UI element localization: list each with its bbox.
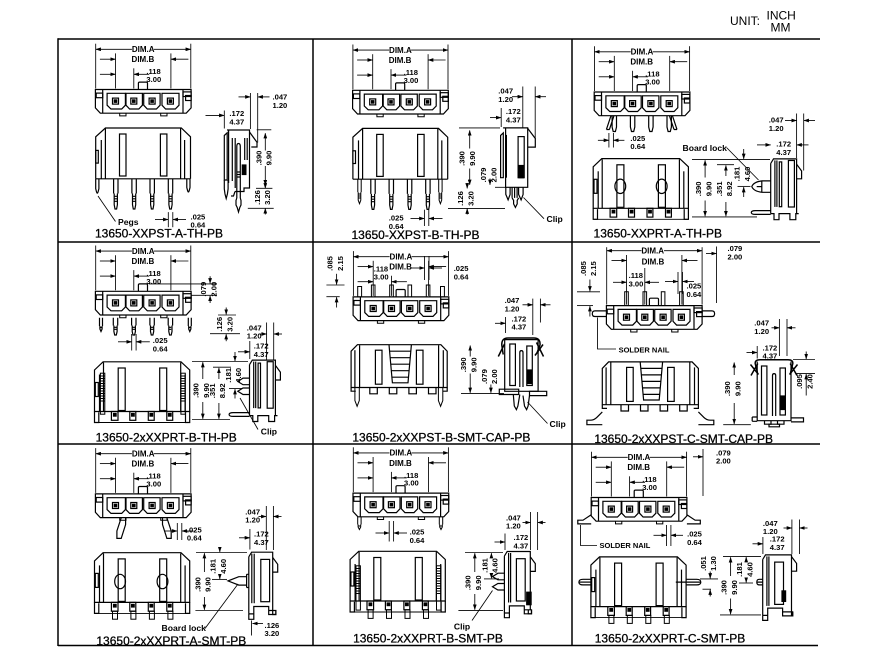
svg-text:0.64: 0.64: [153, 344, 169, 353]
svg-text:2.00: 2.00: [489, 168, 498, 183]
dim .025/0.64: [118, 334, 150, 351]
svg-text:Board lock: Board lock: [162, 623, 207, 633]
dim .126/3.20 vertical: [248, 183, 274, 215]
svg-text:0.64: 0.64: [687, 290, 703, 299]
SMT gull-wing lead right: [163, 518, 172, 539]
dim .390/9.90 vertical: [256, 130, 272, 189]
dim .085/2.15 vertical: [326, 274, 344, 308]
dim .172/4.37: [753, 537, 763, 554]
svg-text:3.00: 3.00: [642, 483, 657, 492]
cap spring: [498, 338, 543, 357]
svg-text:1.20: 1.20: [498, 95, 513, 104]
board lock pin right: [439, 179, 442, 204]
svg-text:13650-2xXXPST-B-SMT-CAP-PB: 13650-2xXXPST-B-SMT-CAP-PB: [352, 430, 530, 444]
mounting feet: [120, 518, 167, 521]
SMT pins up: [625, 292, 684, 306]
clip bar left: [356, 566, 360, 610]
oval contact left: [615, 179, 626, 193]
dim .025/0.64: [164, 523, 194, 540]
dim .390/9.90 vertical: [195, 553, 247, 611]
svg-text:.051: .051: [699, 555, 708, 571]
dim .079/2.00: [706, 247, 717, 304]
svg-text:.126: .126: [456, 191, 465, 206]
svg-text:13650-2xXXPRT-C-SMT-PB: 13650-2xXXPRT-C-SMT-PB: [595, 631, 746, 645]
dim .172/4.37: [490, 108, 501, 127]
dim .181/4.60 vertical: [212, 548, 227, 579]
dim .047/1.20: [259, 323, 282, 360]
oval contact left: [115, 574, 126, 588]
svg-text:13650-2xXXPRT-B-SMT-PB: 13650-2xXXPRT-B-SMT-PB: [353, 632, 503, 646]
dim .172/4.37: [747, 346, 758, 359]
svg-text:Clip: Clip: [547, 214, 563, 224]
solder nail tab: [757, 579, 763, 585]
polarization bump: [138, 82, 147, 89]
dim .181/4.60 vertical: [484, 553, 499, 579]
svg-text:4.60: 4.60: [491, 558, 500, 573]
board lock pin left: [358, 179, 361, 204]
svg-text:2.00: 2.00: [209, 282, 218, 297]
Clip label + leader: [528, 402, 548, 424]
svg-text:2.15: 2.15: [589, 260, 598, 276]
svg-text:3.20: 3.20: [263, 190, 272, 205]
polarization bump: [396, 83, 405, 90]
svg-text:Pegs: Pegs: [118, 217, 139, 227]
top view shell body: [353, 493, 449, 517]
dim .047/1.20: [512, 87, 546, 139]
SOLDER NAIL label + leader: [598, 318, 617, 350]
svg-text:4.37: 4.37: [776, 148, 791, 157]
svg-text:4.37: 4.37: [763, 352, 778, 361]
dim .047/1.20: [523, 512, 546, 550]
end pegs: [100, 318, 103, 332]
clip prongs: [493, 573, 505, 580]
SMT gull-wing lead left: [117, 518, 126, 539]
TH pin left: [751, 211, 770, 215]
svg-text:.390: .390: [720, 580, 729, 595]
svg-text:.079: .079: [199, 282, 208, 297]
side view right-angle with board lock: [751, 159, 801, 220]
svg-text:UNIT:: UNIT:: [730, 14, 760, 28]
top view shell body: [353, 90, 449, 114]
mounting feet: [631, 330, 678, 333]
SMT pins up: [371, 285, 430, 297]
svg-text:Board lock: Board lock: [683, 143, 728, 153]
polarization bump: [634, 490, 643, 497]
svg-text:.390: .390: [192, 383, 201, 398]
dimension head: [96, 448, 191, 493]
mounting feet: [120, 113, 167, 116]
svg-text:9.90: 9.90: [469, 357, 478, 372]
dim .351/8.92 vertical: [213, 367, 231, 419]
svg-text:2.15: 2.15: [336, 255, 345, 271]
solder nail wing left: [592, 311, 606, 317]
svg-text:.126: .126: [215, 317, 224, 332]
svg-text:3.00: 3.00: [146, 75, 161, 84]
svg-text:DIM.B: DIM.B: [642, 258, 665, 267]
svg-text:1.30: 1.30: [709, 556, 718, 571]
TH pin side: [237, 144, 241, 199]
svg-text:9.90: 9.90: [733, 381, 742, 396]
svg-text:4.60: 4.60: [234, 368, 243, 383]
dim .025/0.64: [376, 521, 408, 542]
bottom border: [58, 645, 818, 647]
solder nail right: [676, 579, 701, 585]
svg-text:.079: .079: [480, 369, 489, 384]
clip prongs: [238, 378, 250, 385]
side view right-angle SMT with board lock: [228, 552, 278, 619]
front view right-angle body: [593, 159, 688, 220]
pin 2: [132, 179, 136, 209]
svg-text:.390: .390: [464, 575, 473, 590]
svg-text:3.20: 3.20: [265, 629, 280, 638]
dim .181/4.60 vertical: [738, 149, 751, 197]
board lock bullet: [752, 181, 771, 192]
solder nail wing right: [687, 515, 700, 524]
svg-text:3.00: 3.00: [404, 76, 419, 85]
dim .079/2.00 vertical: [489, 179, 491, 185]
svg-text:.390: .390: [458, 151, 467, 166]
svg-text:.085: .085: [579, 260, 588, 276]
dim .051/1.30 vertical: [700, 572, 718, 597]
polarization bump: [138, 284, 147, 291]
pin 3: [150, 179, 154, 209]
dim .181/4.60 vertical: [739, 557, 753, 583]
pin 1: [114, 179, 118, 209]
top view shell body: [95, 494, 191, 518]
solder nail wing left: [578, 515, 591, 524]
svg-text:3.00: 3.00: [404, 479, 419, 488]
svg-text:9.90: 9.90: [704, 182, 713, 197]
svg-text:0.64: 0.64: [454, 272, 470, 281]
dim .079/2.00: [693, 449, 703, 496]
svg-text:3.20: 3.20: [467, 191, 476, 206]
svg-text:1.20: 1.20: [505, 304, 520, 313]
dim .172/4.37: [757, 144, 809, 146]
dim .172/4.37 above side view: [238, 341, 250, 359]
svg-text:13650-XXPRT-A-TH-PB: 13650-XXPRT-A-TH-PB: [594, 226, 723, 240]
cap spring both sides: [751, 360, 798, 376]
svg-text:.390: .390: [459, 357, 468, 372]
dim .047/1.20: [785, 114, 815, 171]
svg-text:1.20: 1.20: [245, 516, 260, 525]
svg-text:.181: .181: [224, 367, 233, 383]
side view right-angle SMT with clips: [493, 552, 536, 618]
svg-text:Clip: Clip: [261, 427, 277, 437]
svg-text:0.64: 0.64: [630, 142, 646, 151]
svg-text:9.90: 9.90: [730, 580, 739, 595]
svg-text:1.20: 1.20: [506, 522, 521, 531]
oval contact right: [157, 574, 168, 588]
front view right-angle body: [591, 557, 686, 618]
solder nail wing right: [702, 311, 715, 317]
clip bar right: [181, 373, 185, 414]
svg-text:.181: .181: [209, 558, 218, 574]
svg-text:.181: .181: [733, 166, 742, 182]
side view vertical header with clip: [501, 128, 536, 207]
svg-text:.351: .351: [715, 181, 724, 197]
SMT pads below front view: [113, 611, 173, 619]
svg-text:4.60: 4.60: [743, 167, 752, 182]
dimension head: [96, 245, 191, 290]
top view shell body: [95, 90, 191, 114]
svg-text:0.64: 0.64: [687, 538, 703, 547]
pin 1: [371, 179, 375, 209]
dimension head: [353, 45, 448, 90]
svg-text:4.37: 4.37: [770, 543, 785, 552]
svg-text:2.00: 2.00: [716, 457, 731, 466]
bottom steps: [504, 606, 531, 618]
mounting feet: [377, 321, 424, 324]
svg-text:SOLDER NAIL: SOLDER NAIL: [619, 345, 670, 354]
dim .390/9.90 vertical: [720, 557, 761, 615]
top view shell body: [594, 92, 690, 116]
svg-text:1.20: 1.20: [247, 332, 262, 341]
dim .126/3.20: [252, 621, 264, 636]
top border: [58, 38, 820, 40]
svg-text:3.00: 3.00: [146, 277, 161, 286]
svg-text:3.00: 3.00: [645, 78, 660, 87]
dim .172/4.37: [495, 317, 506, 333]
svg-text:Clip: Clip: [454, 621, 470, 631]
dim .172/4.37: [206, 111, 225, 129]
Board lock label + leader: [205, 584, 238, 629]
dim .047/1.20: [239, 93, 270, 143]
dim .025/0.64: [411, 210, 443, 226]
side view body: [224, 130, 257, 212]
dim .025/0.64: [155, 212, 186, 227]
svg-text:3.00: 3.00: [629, 280, 644, 289]
dim .025/0.64 under pins: [598, 133, 625, 148]
solder nail foot left: [587, 412, 602, 425]
svg-text:3.00: 3.00: [146, 479, 161, 488]
top view shell body: [591, 498, 687, 522]
svg-text:3.20: 3.20: [225, 317, 234, 332]
dim .047/1.20: [523, 299, 551, 335]
SMT pads below front view: [609, 615, 669, 623]
dim .025/0.64: [412, 256, 443, 280]
svg-text:.390: .390: [723, 381, 732, 396]
Clip label + leader: [472, 591, 493, 621]
front view body: [353, 128, 448, 179]
svg-text:13650-2xXXPRT-B-TH-PB: 13650-2xXXPRT-B-TH-PB: [96, 430, 237, 444]
svg-text:2.00: 2.00: [490, 369, 499, 384]
svg-text:MM: MM: [771, 21, 791, 35]
mounting feet: [377, 517, 424, 520]
front view right-angle body: [95, 362, 190, 423]
dim .351/8.92 vertical: [717, 165, 734, 217]
dim .181/4.60 vertical: [229, 352, 242, 399]
dim .390/9.90 vertical: [723, 363, 751, 425]
svg-text:.181: .181: [480, 557, 489, 573]
pin 2: [389, 179, 393, 209]
custom dimension head: [607, 247, 702, 304]
top view shell body: [95, 291, 191, 315]
Pegs label + leader: [98, 196, 116, 222]
column divider 2: [571, 39, 573, 646]
dim .047/1.20: [784, 520, 808, 555]
dimension head DIM.A/DIM.B/.118: [96, 44, 191, 89]
solder nail foot right: [698, 412, 713, 425]
svg-text:2.40: 2.40: [805, 374, 814, 389]
svg-text:4.60: 4.60: [745, 562, 754, 577]
dim .126/3.20 vertical: [210, 308, 240, 342]
svg-text:9.90: 9.90: [468, 151, 477, 166]
polarization bump: [396, 486, 405, 493]
clip bar left: [100, 373, 104, 414]
dim .390/9.90 vertical: [692, 160, 770, 217]
dim .172/4.37: [239, 529, 250, 550]
pin 3: [407, 179, 411, 209]
svg-text:9.90: 9.90: [265, 151, 274, 166]
front view vertical SMT body: [351, 345, 447, 394]
mounting feet: [120, 315, 167, 318]
dim .126/3.20 vertical: [448, 183, 505, 215]
dim .079/2.00 vertical: [149, 276, 217, 303]
dim .025/0.64: [654, 525, 684, 546]
top view shell body: [606, 306, 702, 330]
oval contact right: [656, 179, 667, 193]
front view right-angle body: [95, 553, 190, 614]
svg-text:DIM.A: DIM.A: [641, 247, 664, 256]
solder nail left: [579, 579, 591, 585]
polarization bump: [396, 290, 405, 297]
side view right-angle SMT with solder nail: [757, 555, 797, 621]
mounting feet: [377, 114, 424, 117]
row divider 2: [58, 443, 820, 445]
side view right-angle with clips: [229, 360, 280, 421]
svg-text:9.90: 9.90: [474, 575, 483, 590]
svg-text:0.64: 0.64: [187, 534, 203, 543]
svg-text:.085: .085: [326, 255, 335, 271]
end posts up: [358, 287, 445, 297]
TH pins below top view: [606, 116, 677, 132]
right peg: [187, 179, 190, 192]
svg-text:.126: .126: [253, 190, 262, 205]
dimension head: [592, 452, 687, 497]
svg-text:8.92: 8.92: [218, 383, 227, 398]
front view body: [96, 128, 191, 209]
dim .047/1.20: [259, 506, 282, 550]
svg-text:13650-2xXXPST-C-SMT-CAP-PB: 13650-2xXXPST-C-SMT-CAP-PB: [594, 432, 773, 446]
dim .047/1.20: [772, 319, 796, 356]
svg-text:.390: .390: [694, 182, 703, 197]
TH pin bottom: [229, 413, 249, 417]
svg-text:3.00: 3.00: [374, 273, 389, 282]
dim .390/9.90 vertical: [461, 346, 504, 394]
svg-text:8.92: 8.92: [725, 181, 734, 196]
svg-text:.351: .351: [208, 383, 217, 399]
svg-text:1.20: 1.20: [769, 124, 784, 133]
svg-text:SOLDER NAIL: SOLDER NAIL: [600, 541, 651, 550]
svg-text:4.37: 4.37: [254, 538, 269, 547]
bottom feet: [250, 416, 276, 422]
left border: [57, 38, 59, 646]
dim .085/2.15 vertical: [577, 280, 600, 317]
dim .390/9.90 vertical: [192, 362, 248, 420]
dim .390/9.90 vertical: [459, 128, 506, 187]
dim .172/4.37: [495, 534, 506, 551]
dimension head: [595, 46, 690, 91]
svg-text:0.64: 0.64: [410, 536, 426, 545]
svg-text:1.20: 1.20: [754, 327, 769, 336]
top view shell body: [353, 297, 449, 321]
front view right-angle body: [350, 551, 445, 612]
SMT pads below front view: [368, 610, 428, 619]
clip below: [506, 187, 510, 200]
polarization bump: [637, 85, 646, 92]
row divider 1: [58, 241, 820, 243]
dim .079/2.00 vertical: [490, 385, 492, 393]
svg-text:4.37: 4.37: [506, 116, 521, 125]
svg-text:4.37: 4.37: [229, 117, 244, 126]
svg-text:Clip: Clip: [550, 419, 566, 429]
svg-text:4.37: 4.37: [254, 350, 269, 359]
pin 4: [426, 179, 430, 209]
dimension head: [353, 251, 448, 296]
svg-text:13650-XXPST-B-TH-PB: 13650-XXPST-B-TH-PB: [351, 228, 479, 242]
column divider 1: [312, 39, 314, 646]
bottom steps: [249, 607, 276, 620]
bottom feet: [771, 214, 797, 220]
svg-text:2.00: 2.00: [728, 253, 743, 262]
polarization bump: [138, 487, 147, 494]
polarization bump: [649, 298, 658, 305]
short TH pins below top view: [100, 318, 192, 335]
svg-text:.095: .095: [795, 373, 804, 389]
svg-text:4.60: 4.60: [219, 559, 228, 574]
side view vertical SMT with cap and nails: [751, 360, 804, 427]
dimension head: [353, 447, 448, 492]
board lock bullet: [228, 574, 249, 587]
SOLDER NAIL label + leader: [581, 525, 598, 546]
svg-text:13650-XXPST-A-TH-PB: 13650-XXPST-A-TH-PB: [95, 227, 223, 241]
side view vertical SMT with cap: [498, 338, 546, 410]
end pegs below: [358, 517, 443, 530]
dim .025/0.64: [665, 272, 694, 294]
svg-text:9.90: 9.90: [204, 577, 213, 592]
pin 4: [168, 179, 172, 209]
svg-text:.079: .079: [479, 168, 488, 183]
bottom steps: [763, 608, 793, 620]
svg-text:.390: .390: [193, 577, 202, 592]
svg-text:4.37: 4.37: [512, 323, 527, 332]
svg-text:.181: .181: [735, 561, 744, 577]
svg-text:.390: .390: [254, 151, 263, 166]
svg-text:13650-2xXXPRT-A-SMT-PB: 13650-2xXXPRT-A-SMT-PB: [96, 634, 246, 648]
Clip label + leader: [240, 398, 258, 430]
Clip label + leader: [524, 198, 545, 219]
left peg: [96, 179, 99, 193]
svg-text:4.37: 4.37: [514, 542, 529, 551]
clip bar right: [437, 566, 441, 610]
svg-text:1.20: 1.20: [273, 101, 288, 110]
mounting feet: [616, 521, 663, 524]
clip bars through body: [355, 388, 443, 407]
front view vertical SMT body: [602, 362, 698, 411]
dim .095/2.40 vertical: [793, 352, 815, 396]
dim .390/9.90 vertical: [458, 553, 503, 611]
